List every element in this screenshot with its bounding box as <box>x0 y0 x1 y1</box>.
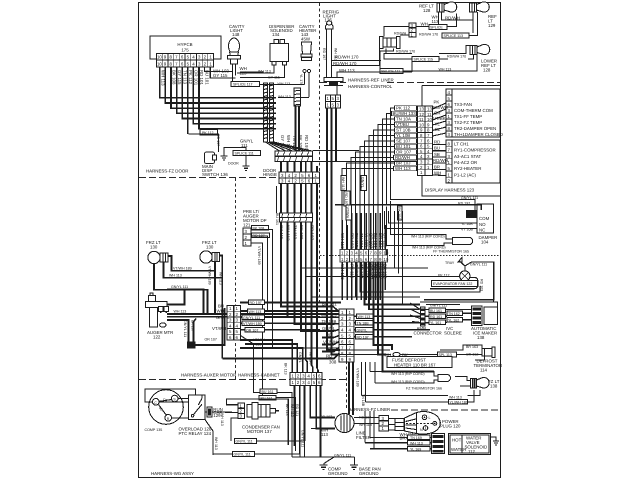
pvc solere label <box>444 326 462 336</box>
svg-text:11: 11 <box>427 112 432 117</box>
door hinge horizontal connector bars <box>275 151 313 156</box>
wires tall connector down to line filter <box>349 362 353 415</box>
condenser fan connector strip <box>238 403 245 419</box>
wires out right of tall connector <box>354 316 440 336</box>
svg-text:PK 112: PK 112 <box>396 106 411 111</box>
svg-text:FILTER: FILTER <box>356 435 371 440</box>
svg-text:RY2-HEATER: RY2-HEATER <box>454 166 481 171</box>
svg-text:RD/WH 170: RD/WH 170 <box>333 61 357 66</box>
frz lt 130 label left <box>146 240 161 250</box>
pin wire labels (vertical) <box>161 70 210 86</box>
terminal R <box>165 415 172 422</box>
misc right-side loops <box>420 264 498 361</box>
svg-text:BK 10A: BK 10A <box>397 207 401 220</box>
cavity light bulb <box>229 38 240 54</box>
wires to water valve <box>365 411 432 449</box>
svg-text:VT/WH: VT/WH <box>346 207 350 219</box>
wires out right of cabinet connector <box>240 303 341 330</box>
svg-text:BU 161: BU 161 <box>261 396 273 400</box>
svg-text:P1-L2 (AC): P1-L2 (AC) <box>454 172 476 177</box>
splice box top <box>429 25 447 30</box>
power plug trapezoid <box>405 413 417 434</box>
svg-text:GY 115: GY 115 <box>177 70 182 85</box>
small hatched connector right of heater <box>294 88 301 106</box>
svg-text:WH 113: WH 113 <box>286 225 291 241</box>
svg-text:SPLICE 117: SPLICE 117 <box>233 83 253 87</box>
amp connector strip <box>421 307 426 326</box>
svg-text:HARNESS-FZ LINER: HARNESS-FZ LINER <box>348 407 390 412</box>
converging wires into tall connector <box>322 307 339 359</box>
svg-text:WH: WH <box>434 171 441 176</box>
cabinet lower connector 2x6 <box>290 373 322 380</box>
harness-fz-liner dashed boundary y=410 <box>391 409 500 411</box>
diagonal wires strip to box1 <box>433 103 447 136</box>
svg-text:WH 113: WH 113 <box>290 404 294 417</box>
svg-text:DOOR: DOOR <box>228 162 239 166</box>
svg-text:BU/WH: BU/WH <box>433 105 448 110</box>
svg-text:130: 130 <box>150 245 158 250</box>
cavity light 148 label <box>229 24 245 37</box>
svg-text:GN/YL 111: GN/YL 111 <box>183 320 187 337</box>
svg-text:BU 101: BU 101 <box>205 70 210 85</box>
svg-text:HARNESS-WG ASSY: HARNESS-WG ASSY <box>151 471 194 476</box>
svg-text:RD 197: RD 197 <box>357 336 369 340</box>
svg-text:SWITCH 136: SWITCH 136 <box>202 172 228 177</box>
hatched bar crossing center bundle <box>280 213 313 218</box>
wire PK112 to switch <box>189 134 219 152</box>
svg-text:YL 10B: YL 10B <box>396 133 410 138</box>
overload / ptc relay box <box>188 395 205 420</box>
diagonal feeds into amp connector <box>410 303 421 323</box>
label WH 113 <box>421 15 460 27</box>
power plug round face <box>417 412 441 435</box>
svg-text:WH: WH <box>421 22 428 27</box>
terminal C <box>153 399 160 406</box>
small connector 3 cells <box>409 23 416 37</box>
svg-text:TN 169: TN 169 <box>410 436 422 440</box>
svg-text:GN/YL 111: GN/YL 111 <box>234 453 251 457</box>
label PK 112 <box>200 130 218 135</box>
svg-text:P4-AC2 OR: P4-AC2 OR <box>454 160 477 165</box>
svg-text:BK 113: BK 113 <box>284 363 288 375</box>
thermistor2 oval <box>438 375 451 382</box>
svg-text:138: 138 <box>477 335 485 340</box>
svg-text:OR 107: OR 107 <box>205 338 217 342</box>
svg-text:10: 10 <box>157 55 162 60</box>
right label boxes of cabinet connector <box>249 300 265 305</box>
svg-text:BU 161: BU 161 <box>262 390 274 394</box>
svg-text:BK: BK <box>467 213 472 217</box>
svg-text:NO: NO <box>479 222 486 227</box>
fz liner tall connector 2x9 <box>339 309 354 362</box>
vertical wire labels above hinge bar <box>280 135 309 151</box>
svg-text:BK 108: BK 108 <box>172 70 177 85</box>
wire labels RD/WH 170 mid <box>333 55 359 74</box>
svg-text:112: 112 <box>468 449 476 454</box>
svg-text:10: 10 <box>419 122 424 127</box>
svg-text:13: 13 <box>427 107 432 112</box>
svg-text:TERMINATOR: TERMINATOR <box>474 363 503 368</box>
svg-text:10: 10 <box>383 257 388 262</box>
left wire-name label boxes <box>393 106 417 172</box>
svg-text:13: 13 <box>419 107 424 112</box>
svg-text:WH 113: WH 113 <box>214 437 218 450</box>
svg-text:C: C <box>154 401 157 405</box>
svg-text:RD/WH: RD/WH <box>433 158 448 163</box>
svg-text:HARNESS-REF LINER: HARNESS-REF LINER <box>348 78 394 83</box>
splice 113 <box>442 33 469 38</box>
wires from liner connector down to right side <box>365 250 435 372</box>
svg-text:GN/YL 111: GN/YL 111 <box>236 440 253 444</box>
wires damper/thermistor area from bundle <box>301 201 480 305</box>
svg-text:BR: BR <box>434 164 440 169</box>
svg-text:WH 113 (RIP CORD): WH 113 (RIP CORD) <box>411 235 445 239</box>
svg-text:VT/WH 189: VT/WH 189 <box>173 267 192 271</box>
cavity light wires to pins <box>205 64 309 98</box>
BK 10A dark cell <box>466 210 477 218</box>
refrig light 126 <box>323 10 340 23</box>
svg-text:TX2-FZ TEMP: TX2-FZ TEMP <box>454 120 482 125</box>
svg-text:PTC RELAY 124: PTC RELAY 124 <box>179 431 212 436</box>
svg-text:TRAY: TRAY <box>445 261 455 265</box>
svg-text:NC: NC <box>479 228 485 233</box>
base pan ground symbol <box>354 457 356 465</box>
svg-text:BU: BU <box>434 146 440 151</box>
svg-text:ST 10B: ST 10B <box>396 128 411 133</box>
run cap box <box>207 407 212 417</box>
thermistor1 wires <box>390 235 453 246</box>
svg-text:SPLICE 111: SPLICE 111 <box>235 152 254 156</box>
svg-text:175: 175 <box>181 48 189 53</box>
left labels of tall connector <box>321 302 337 365</box>
svg-text:R: R <box>167 417 170 421</box>
svg-text:TN 162: TN 162 <box>448 312 460 316</box>
svg-text:COM: COM <box>479 216 490 221</box>
svg-text:148: 148 <box>232 32 240 37</box>
display harness wires going left into down-bundle <box>342 108 420 250</box>
svg-text:OR 107: OR 107 <box>246 328 258 332</box>
evaporator fan symbol <box>460 271 470 281</box>
ground 2 <box>243 160 250 170</box>
comp ground symbol <box>324 457 334 465</box>
verticals horizontal connector to fz door strip <box>281 106 317 172</box>
border frame <box>139 3 501 478</box>
svg-text:EVAPORATOR FAN 122: EVAPORATOR FAN 122 <box>433 282 472 286</box>
ice maker hatched connector <box>472 306 483 326</box>
damper connector box <box>477 204 494 233</box>
label boxes BU 161 / RD 161 / YL 161 <box>429 308 446 313</box>
vertical boxed wire labels below display harness <box>341 176 402 221</box>
fz light wires <box>455 377 471 387</box>
wires line filter to plug <box>311 418 395 431</box>
power plug 120 label <box>440 419 461 429</box>
long crossing wires from door hinge to control side <box>313 151 418 162</box>
display harness 123 outer box <box>422 86 500 197</box>
splice 113 defrost <box>438 352 457 357</box>
label boxes TN 169 / WH 113 / YL 169 <box>408 435 431 440</box>
thermistor2 wires <box>370 362 438 383</box>
water valve ground <box>491 437 497 441</box>
comp ground label <box>328 467 348 477</box>
svg-text:HOT: HOT <box>452 438 462 443</box>
harness partition vertical dashed x=346 <box>346 361 348 410</box>
svg-text:HARNESS-AUXER MOTOR: HARNESS-AUXER MOTOR <box>181 373 236 378</box>
svg-text:PLUG 120: PLUG 120 <box>440 424 461 429</box>
svg-text:RD 121: RD 121 <box>295 404 299 416</box>
diagonals door hinge bar to horizontal connector <box>266 142 312 151</box>
wires freezer lights <box>154 256 222 359</box>
main disp switch body <box>205 152 215 164</box>
vertical wires above liner connector <box>342 213 385 250</box>
svg-text:VT/WH: VT/WH <box>212 326 226 331</box>
svg-text:RD/WH 170: RD/WH 170 <box>447 55 466 59</box>
thermistor1 oval <box>453 237 473 244</box>
svg-text:BU 101: BU 101 <box>396 144 411 149</box>
svg-text:WH 113: WH 113 <box>449 396 462 400</box>
svg-text:RD 161: RD 161 <box>430 315 442 319</box>
svg-text:12: 12 <box>419 112 424 117</box>
svg-text:GROUND: GROUND <box>328 471 348 476</box>
door hinge label <box>263 168 277 177</box>
svg-text:45W: 45W <box>301 37 311 42</box>
label GN/YL 111 <box>240 139 254 149</box>
svg-text:PK 112: PK 112 <box>188 70 193 85</box>
svg-text:FF THERMISTOR 165: FF THERMISTOR 165 <box>433 250 469 254</box>
cabinet row6 wire down to BU161 runs <box>241 336 293 458</box>
display connector strip 13 pins two columns <box>418 106 433 176</box>
svg-text:RD/WH 170: RD/WH 170 <box>396 50 415 54</box>
harness-auxer/cabinet dashed boundary y=379 <box>139 379 346 381</box>
lamp holder cylinder <box>381 38 399 47</box>
svg-text:134: 134 <box>272 32 280 37</box>
label YL/WH 189 box <box>449 400 468 405</box>
evap fan wires <box>420 261 494 300</box>
defrost heater box <box>387 357 452 368</box>
frz light bulb left <box>148 251 160 263</box>
horizontal wires strip to box2 <box>433 145 447 176</box>
svg-text:SB: SB <box>434 152 440 157</box>
svg-text:VT/WH 189: VT/WH 189 <box>356 368 360 387</box>
wire gn/yl to splice and ground <box>224 148 246 161</box>
center vertical bundle below door strip <box>222 184 334 373</box>
wires <box>362 362 481 402</box>
svg-text:WH 113: WH 113 <box>358 315 371 319</box>
cabinet connector 6x2 <box>227 306 241 341</box>
svg-text:WH 113: WH 113 <box>410 441 423 445</box>
refrig light lower connector cells <box>326 95 341 108</box>
wire labels WH 103 / GY 115 <box>213 69 229 79</box>
svg-text:OR 101: OR 101 <box>194 70 199 86</box>
dispenser solenoid 134 body <box>274 40 279 44</box>
svg-text:PK: PK <box>434 100 440 105</box>
defrost terminator <box>482 349 492 357</box>
svg-text:10: 10 <box>427 117 432 122</box>
svg-text:VT/WH: VT/WH <box>323 340 337 345</box>
svg-text:RD/WH 170: RD/WH 170 <box>335 55 359 60</box>
overload/ptc label <box>179 427 213 437</box>
fuse symbol <box>384 353 408 358</box>
svg-text:308: 308 <box>329 360 337 365</box>
board HYPCB 175 <box>150 36 221 59</box>
compressor wires <box>145 389 238 455</box>
svg-text:OR 107: OR 107 <box>396 150 412 155</box>
svg-text:YL 169: YL 169 <box>410 447 421 451</box>
automatic ice maker 138 label <box>471 326 497 340</box>
svg-text:RD 197: RD 197 <box>350 233 355 248</box>
svg-text:WH 113: WH 113 <box>395 166 411 171</box>
condenser fan wires <box>213 399 305 457</box>
wires pre-lt connector <box>251 186 339 451</box>
svg-text:SOLERE: SOLERE <box>444 331 462 336</box>
auger wires <box>161 290 341 346</box>
evaporator fan 122 label <box>432 281 479 287</box>
base pan ground label <box>359 467 381 477</box>
dotted boundary y=255 <box>320 255 500 257</box>
fz lt 138 label <box>488 379 500 389</box>
label box BU 161 lower1 <box>260 389 277 394</box>
vertical wires below liner connector <box>342 262 385 300</box>
svg-text:TH+1DAMPER CLOSED: TH+1DAMPER CLOSED <box>454 132 503 137</box>
svg-text:113: 113 <box>321 432 329 437</box>
svg-text:YL/WH 189: YL/WH 189 <box>450 401 468 405</box>
svg-text:VT/WH 189: VT/WH 189 <box>257 246 261 265</box>
dispenser solenoid 134 label <box>269 24 294 37</box>
svg-text:WH/BK: WH/BK <box>309 352 313 364</box>
power plug connector B <box>395 419 404 431</box>
svg-text:BU/WH 133: BU/WH 133 <box>393 111 417 116</box>
svg-text:WH: WH <box>217 309 224 314</box>
line filter label <box>356 431 371 441</box>
svg-text:GN/YL: GN/YL <box>361 177 365 188</box>
pre lt connector strip <box>243 228 251 246</box>
vertical labels below hatched bar <box>279 225 315 241</box>
svg-text:COMP 135: COMP 135 <box>145 428 163 432</box>
svg-text:YL 162: YL 162 <box>448 319 459 323</box>
svg-text:TN 10A: TN 10A <box>396 117 411 122</box>
pvc label boxes <box>447 311 463 316</box>
svg-text:GN/YL 111: GN/YL 111 <box>470 263 487 267</box>
gn/yl 111 label boxes <box>235 439 257 444</box>
svg-text:RY1-COMPRESSOR: RY1-COMPRESSOR <box>454 148 496 153</box>
auger mtr 122 label <box>147 330 173 340</box>
svg-text:WH 113 (RIP CORD): WH 113 (RIP CORD) <box>391 372 425 376</box>
svg-text:SPLICE 113: SPLICE 113 <box>444 34 464 38</box>
svg-text:RD 197: RD 197 <box>250 301 262 305</box>
svg-text:138: 138 <box>490 384 498 389</box>
cavity heater 143 label <box>299 24 316 42</box>
svg-text:RD 197: RD 197 <box>322 48 326 60</box>
ref lt 129 label <box>488 14 497 28</box>
label box BU 161 lower2 <box>259 395 276 400</box>
svg-text:128: 128 <box>423 8 431 13</box>
condenser fan motor body <box>247 405 252 418</box>
right relay box 2 (compressor rows) <box>446 140 500 183</box>
svg-text:SPLICE 115: SPLICE 115 <box>414 58 434 62</box>
svg-text:MOTOR 137: MOTOR 137 <box>247 429 272 434</box>
svg-text:GROUND: GROUND <box>359 471 379 476</box>
svg-text:TR2-DAMPER OPEN: TR2-DAMPER OPEN <box>454 126 496 131</box>
svg-text:SE 107: SE 107 <box>396 139 411 144</box>
left small labels <box>212 304 230 332</box>
svg-text:YL: YL <box>435 122 441 127</box>
svg-text:WH 113: WH 113 <box>174 310 187 314</box>
svg-text:VT/WH 189: VT/WH 189 <box>243 322 262 326</box>
vertical labels above <box>340 233 388 249</box>
label BK 108 <box>252 226 269 231</box>
svg-text:TN 113: TN 113 <box>183 70 188 85</box>
long verticals from cabinet strip down to power area <box>295 386 336 458</box>
svg-text:HARNESS-FZ DOOR: HARNESS-FZ DOOR <box>146 169 188 174</box>
svg-text:VT/BK: VT/BK <box>433 116 446 121</box>
hypcb pin staircase wires to door hinge connector <box>160 67 276 134</box>
amp connector label <box>414 326 442 336</box>
svg-text:TX3-FAN: TX3-FAN <box>454 102 472 107</box>
svg-text:104: 104 <box>481 240 489 245</box>
svg-text:HARNESS-CONTROL: HARNESS-CONTROL <box>348 84 393 89</box>
svg-text:N: N <box>420 428 423 432</box>
ice maker wires <box>425 305 472 323</box>
svg-text:121: 121 <box>243 223 251 228</box>
svg-text:11: 11 <box>419 117 424 122</box>
door connector of refrig light (hatched) <box>324 78 343 82</box>
svg-text:RD: RD <box>434 140 440 145</box>
svg-text:L: L <box>429 416 431 420</box>
svg-text:GN/YL: GN/YL <box>357 329 368 333</box>
auger switch dark box <box>187 342 196 349</box>
frz lt 130 label right <box>202 240 217 250</box>
svg-text:A3-AC1 STAT: A3-AC1 STAT <box>454 154 481 159</box>
svg-text:128: 128 <box>483 68 491 73</box>
damper 104 label <box>479 235 498 245</box>
svg-text:DISPLAY HARNESS 123: DISPLAY HARNESS 123 <box>425 188 475 193</box>
connector strip of HYPCB (two rows, pins 10..1) <box>157 54 214 61</box>
svg-text:129: 129 <box>488 23 496 28</box>
svg-text:WH 113: WH 113 <box>339 68 355 73</box>
svg-text:OL: OL <box>435 127 441 132</box>
svg-text:114: 114 <box>480 368 488 373</box>
svg-text:GN/YL 111: GN/YL 111 <box>171 285 188 289</box>
svg-text:YL 161: YL 161 <box>430 321 441 325</box>
splice 117 <box>231 82 260 87</box>
svg-text:122: 122 <box>153 335 161 340</box>
svg-text:GN/YL 111: GN/YL 111 <box>243 316 260 320</box>
ground feed wires <box>292 456 355 458</box>
short labels on diagonals <box>433 100 448 133</box>
lower ref lt 128 label <box>481 59 497 73</box>
splice 115 <box>412 57 439 62</box>
cavity heater body <box>302 42 312 54</box>
right labels of tall connector <box>357 314 375 319</box>
terminal S <box>171 395 178 402</box>
frz light bulb right <box>200 251 212 263</box>
pre lt / auger connector label <box>243 209 267 228</box>
svg-text:COM-THERM COM: COM-THERM COM <box>454 108 493 113</box>
winding squiggles <box>159 400 172 415</box>
svg-text:HINGE: HINGE <box>263 172 277 177</box>
svg-text:TX1-FF TEMP: TX1-FF TEMP <box>454 114 482 119</box>
svg-text:BK 108: BK 108 <box>299 225 304 240</box>
water valve hatched connector <box>432 434 445 454</box>
harness-fz-door dashed boundary y=177 <box>139 177 278 179</box>
svg-text:VT/WH 189: VT/WH 189 <box>208 266 212 285</box>
svg-text:YL 170: YL 170 <box>299 74 303 85</box>
svg-text:TN 113: TN 113 <box>293 225 298 240</box>
svg-text:RD 197: RD 197 <box>310 225 315 240</box>
ref lt 128 label <box>419 4 434 14</box>
fz door numbered connector strip <box>279 172 320 178</box>
power plug connector strip <box>379 416 389 432</box>
svg-text:GY 115: GY 115 <box>279 225 284 240</box>
